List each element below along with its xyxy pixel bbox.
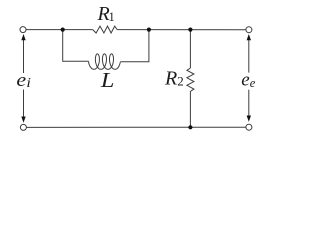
ei arrow up	[21, 34, 25, 40]
ei measure line upper	[23, 39, 25, 74]
svg-text:R1: R1	[97, 3, 115, 25]
ei arrow down	[21, 117, 25, 123]
wire R2 top lead	[189, 30, 191, 68]
wire L-branch right rise	[120, 30, 149, 62]
ee measure line lower	[248, 90, 250, 117]
node junction top-left of parallel pair	[61, 28, 65, 32]
wire L-branch left drop	[63, 30, 89, 62]
svg-text:ei: ei	[16, 70, 31, 91]
ee arrow down	[247, 116, 251, 122]
node junction top-right of parallel pair	[147, 28, 151, 32]
ee arrow up	[247, 34, 251, 40]
svg-text:L: L	[100, 68, 115, 92]
inductor L	[89, 54, 121, 69]
terminal bottom-left	[20, 124, 26, 130]
terminal bottom-right	[246, 124, 252, 130]
wire R2 bottom lead	[189, 91, 191, 127]
terminal top-left	[20, 27, 26, 33]
resistor R1	[93, 26, 117, 33]
node junction R2 bottom	[188, 125, 192, 129]
wire top-right	[117, 29, 246, 31]
ee measure line upper	[248, 39, 250, 73]
terminal top-right	[246, 27, 252, 33]
wire top-left	[26, 29, 93, 31]
svg-text:R2: R2	[164, 67, 184, 89]
resistor R2	[187, 68, 194, 91]
wire bottom	[27, 126, 246, 128]
ei measure line lower	[23, 90, 25, 119]
node junction R2 top	[188, 28, 192, 32]
svg-text:ee: ee	[241, 70, 255, 91]
